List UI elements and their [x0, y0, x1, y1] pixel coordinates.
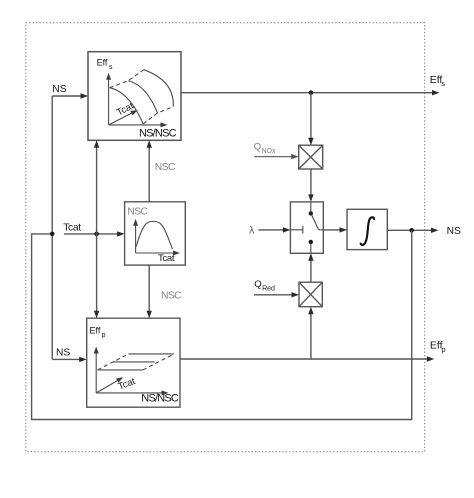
- label Eff_s (output): [430, 74, 446, 88]
- block U1 Eff_s 2-D lookup table: [88, 52, 181, 141]
- wire M1 output into switch: [308, 169, 313, 202]
- U1 label Eff_s: [97, 57, 113, 70]
- wire NS into Eff_p: [52, 357, 86, 362]
- junction NS feedback: [50, 232, 55, 237]
- U1 dashed top edge: [110, 70, 144, 88]
- wire switch output into integrator: [323, 227, 347, 232]
- U3 dashed left edge: [98, 354, 129, 370]
- svg-text:p: p: [102, 332, 106, 339]
- svg-text:Eff: Eff: [90, 325, 101, 335]
- svg-text:NS: NS: [56, 347, 70, 358]
- wire NSC up into Eff_s: [147, 140, 152, 202]
- svg-text:Tcat: Tcat: [63, 222, 81, 233]
- U1 y-axis: [106, 73, 111, 125]
- U3 surface bottom line: [98, 369, 143, 371]
- SW top port stub: [310, 202, 312, 211]
- block U3 Eff_p 2-D lookup table: [87, 318, 180, 407]
- svg-text:NSC: NSC: [127, 207, 148, 218]
- wire Eff_s output: [181, 90, 440, 95]
- subsystem dotted boundary: [26, 23, 425, 452]
- wire Tcat up into Eff_s: [94, 140, 99, 234]
- wire lambda control input: [258, 227, 290, 232]
- junction Tcat branch: [94, 232, 99, 237]
- U3 x-axis: [96, 390, 168, 395]
- U3 surface middle line: [113, 361, 155, 363]
- U1 map curve 2: [128, 81, 157, 113]
- SW lever: [312, 215, 324, 230]
- U1 map curve 1: [110, 88, 144, 124]
- U2 bell curve: [136, 221, 172, 249]
- U2 y-axis: [133, 219, 138, 253]
- SW bottom port stub: [310, 244, 312, 253]
- U3 Tcat axis arrow: [96, 377, 123, 393]
- svg-text:Eff: Eff: [97, 57, 108, 67]
- SW control tick: [302, 226, 304, 234]
- block INT integrator: [347, 209, 387, 249]
- svg-text:s: s: [441, 79, 445, 88]
- svg-text:s: s: [109, 64, 113, 71]
- U3 label Eff_p: [90, 325, 106, 338]
- SW top contact dot: [309, 211, 313, 215]
- wire Eff_p output: [180, 356, 434, 361]
- label Eff_p (output): [430, 340, 446, 354]
- label Q_Red: [254, 279, 275, 293]
- wire Eff_s down into M1: [308, 93, 313, 146]
- svg-text:NSC: NSC: [161, 291, 182, 302]
- block SW switch: [290, 202, 323, 253]
- wire M2 output up into switch: [308, 253, 313, 282]
- wire NS vertical trunk: [51, 96, 53, 359]
- svg-text:p: p: [441, 345, 445, 354]
- svg-text:NS: NS: [447, 226, 461, 237]
- svg-text:NS/NSC: NS/NSC: [139, 128, 177, 140]
- block M1 product (Q_NOx x Eff_s): [299, 145, 323, 169]
- U3 y-axis: [94, 347, 99, 393]
- svg-text:NS/NSC: NS/NSC: [141, 392, 179, 404]
- wire NSC down into Eff_p: [147, 265, 152, 318]
- SW control line: [290, 229, 302, 231]
- wire Eff_p branch up into M2: [308, 307, 313, 359]
- wire Tcat horizontal: [64, 231, 125, 236]
- svg-text:Q: Q: [254, 279, 261, 290]
- svg-text:NSC: NSC: [155, 162, 176, 173]
- U1 map curve 3: [144, 70, 174, 107]
- block M2 product (Q_Red x Eff_p): [299, 282, 322, 307]
- U2 x-axis: [136, 251, 180, 256]
- wire Q_NOx input into M1: [254, 154, 298, 159]
- wire NS input into Eff_s: [52, 93, 88, 98]
- wire NS output: [387, 228, 438, 233]
- U1 x-axis: [109, 122, 168, 127]
- svg-text:Tcat: Tcat: [158, 253, 175, 264]
- svg-text:NS: NS: [52, 84, 66, 95]
- block U2 NSC 1-D lookup table: [125, 202, 186, 265]
- svg-text:λ: λ: [249, 226, 254, 237]
- U3 dashed right edge: [143, 354, 174, 370]
- junction Eff_s to product: [309, 90, 314, 95]
- SW bottom contact dot: [309, 240, 313, 244]
- svg-text:Red: Red: [262, 285, 275, 292]
- U3 surface top line: [129, 353, 175, 355]
- junction NS feedback takeoff: [409, 228, 414, 233]
- U1 Tcat axis arrow: [109, 110, 138, 125]
- wire NS feedback loop: [32, 230, 412, 419]
- U1 dashed bottom edge: [143, 107, 173, 124]
- label Q_NOx: [254, 141, 276, 155]
- INT integral sign: [361, 217, 375, 245]
- svg-text:Q: Q: [254, 141, 261, 152]
- wire Q_Red input into M2: [254, 292, 299, 297]
- wire Tcat down into Eff_p: [94, 234, 99, 318]
- svg-text:NOx: NOx: [262, 148, 277, 155]
